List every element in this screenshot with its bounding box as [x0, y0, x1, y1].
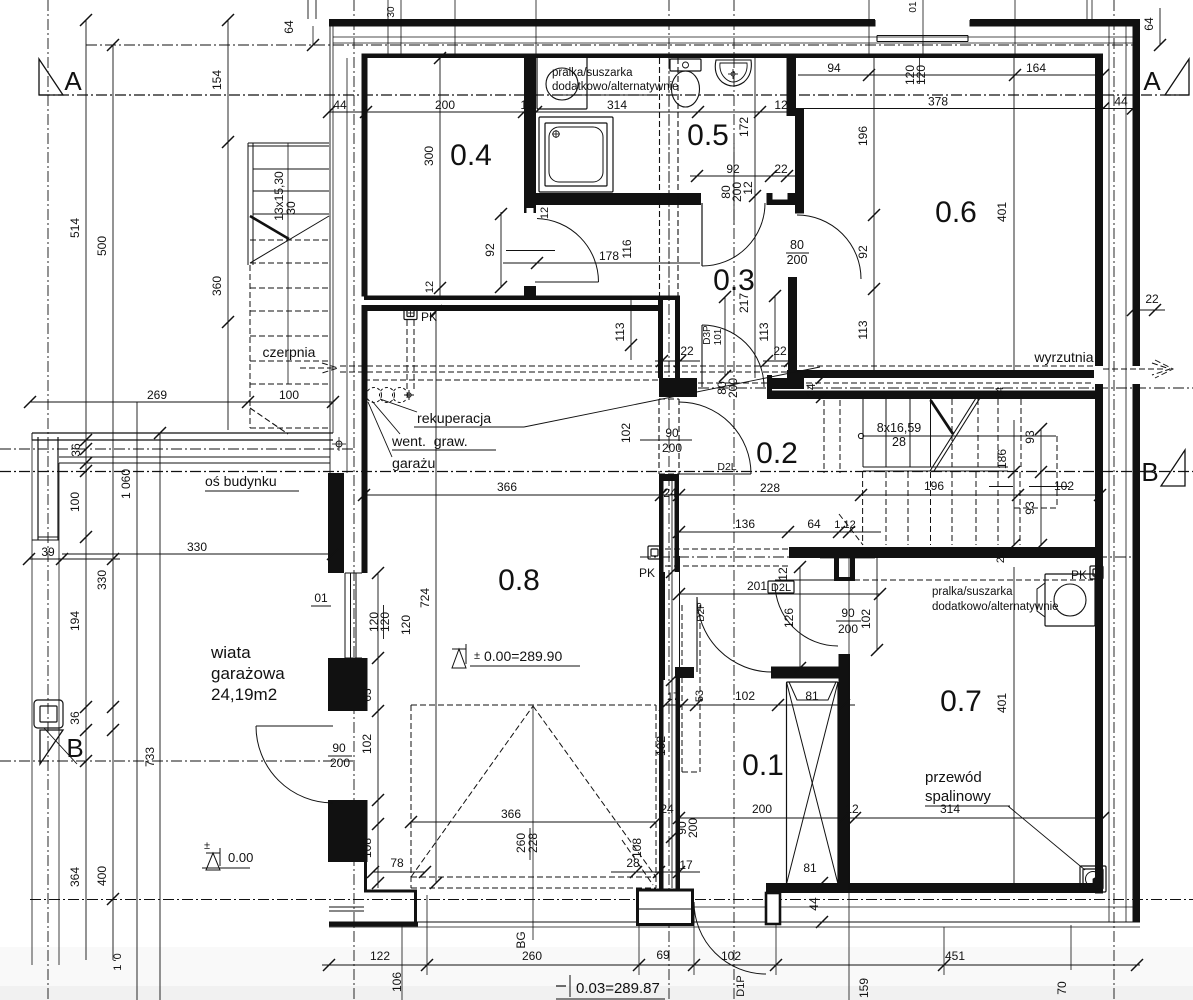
svg-text:200: 200 [726, 378, 740, 398]
garage window 01 [345, 573, 362, 658]
svg-text:93: 93 [1023, 501, 1037, 515]
dim 201 D2L y=594 [673, 579, 886, 600]
svg-text:78: 78 [390, 856, 404, 870]
stair top wall y=388 [767, 391, 1103, 400]
svg-text:93: 93 [1023, 430, 1037, 444]
svg-text:A: A [64, 66, 82, 96]
svg-text:90: 90 [332, 741, 346, 755]
svg-text:120: 120 [399, 615, 413, 635]
svg-text:24,19m2: 24,19m2 [211, 685, 277, 704]
axis vertical x=48 [47, 0, 49, 1000]
svg-text:101: 101 [713, 328, 724, 345]
svg-text:0.1: 0.1 [742, 749, 784, 782]
svg-text:12: 12 [776, 567, 790, 581]
svg-text:378: 378 [928, 95, 948, 109]
svg-text:200: 200 [686, 818, 700, 838]
svg-text:1 060: 1 060 [119, 469, 133, 499]
door jamb notch D4L [527, 208, 534, 213]
svg-text:113: 113 [856, 320, 870, 339]
door D3L 0.6 arc [797, 215, 861, 279]
wall 0.8 right hollow section below door [659, 474, 679, 572]
dim 0.7 401 x=1014 [995, 567, 1014, 883]
inner top wall [364, 54, 1103, 59]
svg-text:64: 64 [282, 20, 296, 34]
svg-text:100: 100 [68, 492, 82, 512]
svg-text:364: 364 [68, 867, 82, 887]
svg-text:28: 28 [892, 435, 906, 449]
dim bottom chain y=965 [112, 948, 1143, 971]
dim 366/260/228 garage bottom [405, 807, 662, 860]
wall 0.8/0.1 x=659 lower [659, 572, 665, 680]
svg-text:53: 53 [694, 690, 706, 702]
duct opening in right wall [1131, 366, 1141, 384]
svg-text:30: 30 [284, 201, 298, 215]
text os budynku [205, 473, 299, 491]
D3P jamb pieces [767, 375, 772, 398]
svg-text:330: 330 [187, 540, 207, 554]
dim chain 0.6 y=75 [798, 56, 1109, 85]
dim 0.4 door 92 [483, 208, 507, 293]
svg-text:102: 102 [654, 736, 668, 756]
svg-text:92: 92 [483, 243, 497, 257]
svg-text:69: 69 [656, 948, 670, 962]
axis horizontal B y=471 [0, 471, 1193, 473]
svg-text:0.8: 0.8 [498, 564, 540, 597]
svg-text:400: 400 [95, 866, 109, 886]
axis horizontal y=449 carport [0, 448, 356, 450]
axis horizontal y=899 bottom wall [30, 899, 1193, 901]
dim 36 carport [107, 701, 119, 736]
text pralka 0.7 [932, 586, 1059, 613]
svg-text:100: 100 [279, 388, 299, 402]
svg-text:366: 366 [501, 807, 521, 821]
svg-text:314: 314 [940, 802, 960, 816]
svg-text:217: 217 [737, 293, 751, 313]
dim labels D3P 101 [702, 325, 724, 345]
svg-text:1 '0: 1 '0 [112, 953, 124, 970]
dim 0.8 right 102/108 x=672 [630, 474, 678, 888]
svg-text:102: 102 [1054, 479, 1074, 493]
czerpnia duct arrow [300, 363, 338, 373]
svg-text:24: 24 [663, 486, 677, 500]
svg-text:360: 360 [210, 276, 224, 296]
outer wall top [329, 19, 875, 27]
svg-text:22: 22 [1145, 292, 1159, 306]
svg-text:D3P: D3P [702, 325, 713, 345]
svg-text:D2P: D2P [696, 602, 707, 622]
wall 0.8 right hollow to bottom [659, 678, 664, 890]
dim 269/100 y=402 [24, 388, 339, 408]
dim vertical x=86 [68, 14, 92, 960]
duct niche below wall [820, 557, 875, 582]
level mark 0.00 carport [202, 840, 253, 870]
ventilation shaft with X brace [787, 682, 839, 884]
svg-text:0.4: 0.4 [450, 139, 492, 172]
svg-text:przewód: przewód [925, 769, 982, 786]
svg-text:200: 200 [787, 253, 808, 267]
washer bathroom [537, 56, 587, 109]
flue przewod spalinowy [1080, 866, 1106, 892]
wall 0.2/0.1 nook y=666 [771, 667, 849, 679]
dim 0.1 bottom 200/81/12 y=818 [660, 802, 859, 875]
svg-text:136: 136 [735, 517, 755, 531]
wall below door D1L [328, 800, 368, 862]
top wall inner finish lines [333, 36, 1133, 38]
svg-text:314: 314 [607, 98, 627, 112]
axis marker carport corner [332, 437, 346, 451]
axis horizontal y=388 wyrzutnia [660, 387, 1193, 389]
svg-text:120: 120 [378, 612, 392, 632]
svg-text:24: 24 [994, 387, 1006, 399]
duct dashed PK to PK [665, 549, 1093, 580]
svg-text:201: 201 [747, 579, 767, 593]
svg-text:70: 70 [1055, 981, 1069, 995]
section mark B right [1141, 450, 1185, 487]
door D2L 0.1 leaf+arc [775, 579, 840, 581]
section mark A left [39, 59, 82, 96]
svg-text:oś budynku: oś budynku [205, 473, 277, 489]
svg-text:164: 164 [1026, 61, 1046, 75]
wall 0.5 right x=786.5 [787, 54, 797, 115]
dim vertical x=137 [119, 402, 137, 1000]
svg-text:24: 24 [660, 802, 674, 816]
stair lower flight dashed risers [863, 472, 1020, 545]
svg-text:102: 102 [859, 609, 873, 629]
svg-text:12: 12 [539, 207, 551, 219]
svg-text:22: 22 [680, 344, 694, 358]
wall 0.2/0.7 y=547 [789, 547, 1103, 558]
dim 0.3 113 left x=638 [613, 296, 700, 367]
dim 0.1 nook extension lines [687, 495, 689, 515]
dim 0.5 door 92/22 y=176 [690, 143, 800, 225]
stair dim 13x15,30 [272, 171, 298, 221]
text garazu [270, 401, 435, 472]
svg-text:200: 200 [752, 802, 772, 816]
duct shaft dashed in 0.1 [682, 605, 700, 772]
svg-text:went. graw.: went. graw. [391, 434, 468, 450]
svg-text:22: 22 [774, 162, 788, 176]
washer 0.7 [1037, 574, 1095, 626]
axis vertical x=669 [668, 0, 670, 1000]
svg-text:196: 196 [856, 126, 870, 146]
dim labels 80/200 door 0.6 [786, 238, 809, 267]
svg-text:178: 178 [599, 249, 619, 263]
wall below 0.6 door [788, 277, 797, 370]
duct drop dashed in 0.2 [824, 400, 840, 473]
paper edge tint bottom [0, 947, 1193, 1000]
text pralka bathroom [552, 67, 679, 95]
dim 0.5 interior 172/217 x=755 [737, 58, 761, 378]
svg-text:0.03=289.87: 0.03=289.87 [576, 980, 660, 997]
garage PK symbol [404, 307, 437, 325]
carport post square B [34, 700, 63, 728]
svg-text:81: 81 [805, 689, 819, 703]
west facade finish lines [329, 19, 331, 433]
dim 36 beams [69, 434, 92, 469]
dim garage door 90/200 + 102 [619, 423, 692, 474]
window W top [875, 20, 970, 42]
dim stair right 93/186/93 [995, 420, 1047, 563]
dim 0.2 136/64/1,12 y=532 [673, 517, 881, 538]
svg-text:330: 330 [95, 570, 109, 590]
dim 0.4 vertical 300 [422, 52, 446, 296]
svg-text:BG: BG [514, 931, 528, 948]
svg-text:dodatkowo/alternatywnie: dodatkowo/alternatywnie [552, 81, 679, 93]
axis horizontal A y=95 [39, 94, 1189, 96]
text przewod spalinowy with leader [925, 769, 1085, 870]
axis horizontal y=45 (top wall axis) [86, 44, 1140, 46]
svg-text:garażowa: garażowa [211, 664, 285, 683]
svg-text:200: 200 [330, 756, 350, 770]
svg-text:92: 92 [856, 245, 870, 259]
svg-text:733: 733 [143, 747, 157, 767]
svg-text:8x16,59: 8x16,59 [877, 421, 922, 435]
door D2P nook leaf+arc [696, 597, 698, 672]
svg-text:B: B [1141, 457, 1158, 487]
carport left post top [32, 437, 59, 540]
door D1L arc carport to garage [256, 725, 333, 727]
svg-text:102: 102 [619, 423, 633, 443]
svg-text:D1P: D1P [735, 975, 747, 996]
svg-text:44: 44 [807, 897, 821, 911]
section mark A right [1143, 59, 1189, 96]
svg-text:24: 24 [804, 383, 818, 397]
dim 0.8 left 63/102/108 x=378 [360, 567, 384, 889]
door D4L arc room 0.4 [537, 219, 599, 283]
text rekuperacja with leader [380, 367, 820, 427]
duct dashed czerpnia to wyrzutnia [340, 366, 1103, 383]
svg-text:D2L: D2L [771, 582, 791, 594]
bottom wall inner thick [766, 883, 1103, 893]
svg-text:64: 64 [807, 517, 821, 531]
extension lines bottom area [160, 402, 1071, 1000]
svg-text:64: 64 [1142, 17, 1156, 31]
dim bottom rotated labels [390, 931, 1069, 998]
west wall lower section with window+door [328, 473, 344, 573]
wall 0.4 right / bathroom left x=524 [524, 54, 536, 214]
level mark -0.03=289.87 [556, 975, 665, 999]
svg-text:451: 451 [945, 949, 965, 963]
dim right side 24/44 x=822 verticals [696, 372, 828, 928]
footing outline at 0.8/0.1 wall [622, 840, 693, 925]
section mark B left [40, 730, 84, 764]
0.5 door sill pieces [767, 193, 805, 205]
svg-text:102: 102 [735, 689, 755, 703]
stair landing dashed box [839, 436, 1069, 545]
door 0.8->0.2 dashed opening [659, 399, 679, 474]
dim 0.1 left 90/200 y=828 [675, 818, 700, 838]
svg-text:94: 94 [827, 61, 841, 75]
dim 0.8 interior 366/24/228/196/102 y=495 [358, 479, 1106, 501]
svg-text:01: 01 [314, 591, 328, 605]
svg-text:81: 81 [803, 861, 817, 875]
bathroom bottom wall y=193 [525, 193, 701, 205]
svg-text:1,12: 1,12 [834, 519, 855, 531]
wall 0.4 bottom y=296 [364, 296, 680, 301]
dim garage window 01 120/120 [311, 591, 413, 639]
svg-text:172: 172 [737, 117, 751, 137]
west wall of rooms 0.4/0.8 [362, 54, 368, 297]
svg-text:12: 12 [741, 181, 755, 195]
dim 0.6 left chain 196/92/113 x=874 [856, 58, 880, 370]
door D3P arc 0.3 to 0.2 [701, 325, 703, 387]
dim chain top right y=108 [800, 95, 1140, 115]
svg-text:44: 44 [333, 98, 347, 112]
dashed partition bathroom/0.5 [660, 58, 679, 296]
svg-text:24: 24 [995, 551, 1007, 563]
right wall inner finish lines [1125, 26, 1127, 922]
svg-text:dodatkowo/alternatywnie: dodatkowo/alternatywnie [932, 601, 1059, 613]
door D1P arc [694, 902, 766, 974]
svg-text:401: 401 [995, 202, 1009, 222]
svg-text:22: 22 [773, 344, 787, 358]
dim garage bottom 78/28/17 y=866 [367, 856, 700, 878]
washbasin 0.5 [715, 60, 751, 86]
svg-text:±: ± [474, 650, 480, 662]
svg-text:17: 17 [679, 858, 693, 872]
svg-text:300: 300 [422, 146, 436, 166]
bottom wall outer finish lines [658, 906, 1133, 908]
text went graw [372, 401, 496, 450]
svg-text:102: 102 [360, 734, 374, 754]
wyrzutnia arrow right [1103, 360, 1173, 378]
svg-text:30: 30 [386, 6, 397, 18]
text 8x16,59 28 [862, 421, 921, 449]
svg-text:366: 366 [497, 480, 517, 494]
svg-text:200: 200 [838, 622, 858, 636]
svg-text:120: 120 [914, 65, 928, 85]
dim vertical x=160 [143, 427, 166, 1000]
dim 0.8 90/200 D1L [328, 741, 352, 770]
svg-text:pralka/suszarka: pralka/suszarka [932, 586, 1013, 598]
svg-text:269: 269 [147, 388, 167, 402]
dim 0.3 left 113/22 x=775 [757, 290, 797, 367]
svg-text:102: 102 [721, 949, 741, 963]
carport post bottom leader [44, 728, 77, 764]
svg-text:159: 159 [857, 978, 871, 998]
inner right wall rooms 0.6/0.7 [1095, 54, 1103, 894]
svg-text:126: 126 [782, 608, 796, 628]
svg-text:92: 92 [726, 162, 740, 176]
svg-text:116: 116 [620, 239, 634, 258]
svg-text:12: 12 [774, 98, 788, 112]
axis vertical x=354 (left wall axis) [353, 0, 355, 1000]
svg-text:724: 724 [418, 588, 432, 608]
axis vertical x=734 [733, 0, 735, 1000]
dim 178/116 y=263 [503, 239, 700, 269]
svg-text:260: 260 [522, 949, 542, 963]
toilet 0.5 [670, 59, 701, 107]
garage top wall y=305 [364, 305, 661, 311]
svg-text:rekuperacja: rekuperacja [417, 411, 491, 427]
svg-text:czerpnia: czerpnia [263, 344, 316, 360]
svg-text:wiata: wiata [210, 643, 251, 662]
svg-text:80: 80 [790, 238, 804, 252]
svg-text:D2L: D2L [717, 461, 736, 473]
svg-text:200: 200 [662, 441, 682, 455]
outer wall right [1133, 19, 1141, 922]
svg-text:PK: PK [639, 566, 655, 580]
text wiata garazowa [210, 643, 285, 704]
svg-text:12: 12 [520, 98, 534, 112]
svg-text:12: 12 [845, 802, 859, 816]
svg-text:200: 200 [435, 98, 455, 112]
svg-text:12: 12 [424, 281, 436, 293]
svg-text:pralka/suszarka: pralka/suszarka [552, 67, 633, 79]
dim right edge 22 [1127, 292, 1165, 316]
svg-text:0.00=289.90: 0.00=289.90 [484, 648, 562, 664]
svg-text:122: 122 [370, 949, 390, 963]
shower tray [539, 117, 613, 192]
interior stairs 8x16,59 [858, 398, 1056, 471]
dim nook chain 17/53/102/81 y=705 [659, 689, 855, 711]
svg-text:0.00: 0.00 [228, 850, 253, 865]
svg-text:0.5: 0.5 [687, 119, 729, 152]
garage SW corner L-wall outline [329, 800, 418, 925]
dim 0.8 vertical 724 x=436 [418, 305, 442, 889]
svg-text:17: 17 [667, 691, 679, 703]
dim chain top y=112 [323, 98, 800, 118]
exterior stairs 13x15,30 [248, 143, 329, 428]
dim vertical x=228 154/360 [210, 14, 234, 430]
level mark 0.00=289.90 [452, 644, 580, 668]
svg-text:500: 500 [95, 236, 109, 256]
wall chunk left of D3P [659, 378, 697, 397]
svg-text:63: 63 [360, 688, 374, 702]
axis horizontal y=557 through 0.1/0.7 top wall [640, 556, 1140, 558]
rekuperacja dashed circles [367, 388, 415, 403]
PK symbol 0.2 [639, 546, 661, 580]
dim D3P door 101 x=725 [715, 291, 740, 398]
svg-text:0.7: 0.7 [940, 685, 982, 718]
svg-text:108: 108 [360, 838, 374, 858]
svg-text:28: 28 [626, 856, 640, 870]
axis horizontal B' y=761 carport post [0, 760, 356, 762]
svg-text:wyrzutnia: wyrzutnia [1033, 349, 1093, 365]
dim 64 top right [1142, 8, 1166, 51]
garage roof dashed outline [411, 705, 656, 888]
svg-text:186: 186 [995, 449, 1009, 469]
svg-text:A: A [1143, 66, 1161, 96]
svg-text:154: 154 [210, 70, 224, 90]
svg-text:0.3: 0.3 [713, 264, 755, 297]
svg-text:228: 228 [760, 481, 780, 495]
svg-text:garażu: garażu [392, 456, 435, 472]
svg-text:0.6: 0.6 [935, 196, 977, 229]
svg-text:514: 514 [68, 218, 82, 238]
wall between window and door D1L [328, 658, 368, 711]
PK symbol 0.7 [1071, 566, 1103, 864]
door D3L bathroom leaf+arc [701, 203, 703, 266]
door D1P jamb right outline [766, 893, 780, 924]
svg-text:B: B [66, 733, 83, 763]
svg-text:90: 90 [841, 606, 855, 620]
svg-text:194: 194 [68, 611, 82, 631]
PK dashed drop garage [407, 320, 414, 392]
svg-text:113: 113 [757, 322, 771, 341]
svg-text:01: 01 [908, 1, 919, 13]
svg-text:39: 39 [41, 545, 55, 559]
dim vertical x=113 [95, 39, 119, 960]
svg-text:0.2: 0.2 [756, 437, 798, 470]
dim 90/200 door 0.1 + 126 + 102 [782, 557, 883, 674]
axis vertical x=1114 (right wall axis) [1113, 0, 1115, 1000]
carport edge extension lines [32, 440, 59, 965]
extension lines above building [282, 0, 1092, 58]
svg-text:36: 36 [68, 711, 82, 725]
door D2L 0.8 arc [679, 402, 751, 474]
dim 0.7 314 y=818 [849, 802, 1109, 824]
